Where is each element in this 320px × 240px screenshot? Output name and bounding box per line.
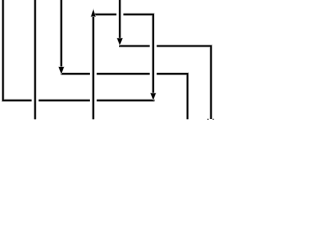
arrowhead down on V5 [117, 38, 122, 45]
wire H-bottom segment 3 [97, 99, 155, 101]
wire H-top segment 1 [93, 13, 116, 15]
soft halo understrokes for all wires [3, 0, 211, 119]
wire V1 left vertical with bottom horizontal corner [3, 0, 32, 100]
arrowhead down on V6 [151, 93, 156, 100]
wire H-bottom segment 2 [39, 99, 90, 101]
wire V3 vertical [60, 0, 62, 67]
arrowhead down on V6 core [151, 93, 156, 100]
arrowhead up on V4 [91, 10, 95, 17]
wire H2 segment 2 with corner down V8 [157, 46, 211, 119]
cropped mark at bottom edge 1 [207, 119, 209, 120]
wire H-mid segment 2 [97, 73, 150, 75]
wire H-mid segment 3 with corner down V7 [157, 74, 188, 120]
wire H-mid segment 1 [61, 73, 90, 75]
wire V5 vertical [119, 0, 121, 39]
arrowhead up on V4 core [91, 10, 95, 17]
wire H-top segment 2 with corner down V6 [123, 14, 153, 93]
wire V4 vertical [92, 16, 94, 119]
arrowhead down on V3 [59, 67, 64, 74]
wire H2 segment 1 [119, 45, 150, 47]
wire V2 vertical [34, 0, 36, 119]
arrowhead down on V5 core [117, 38, 122, 45]
arrowhead down on V3 core [59, 67, 64, 74]
cropped mark at bottom edge 2 [212, 119, 214, 120]
